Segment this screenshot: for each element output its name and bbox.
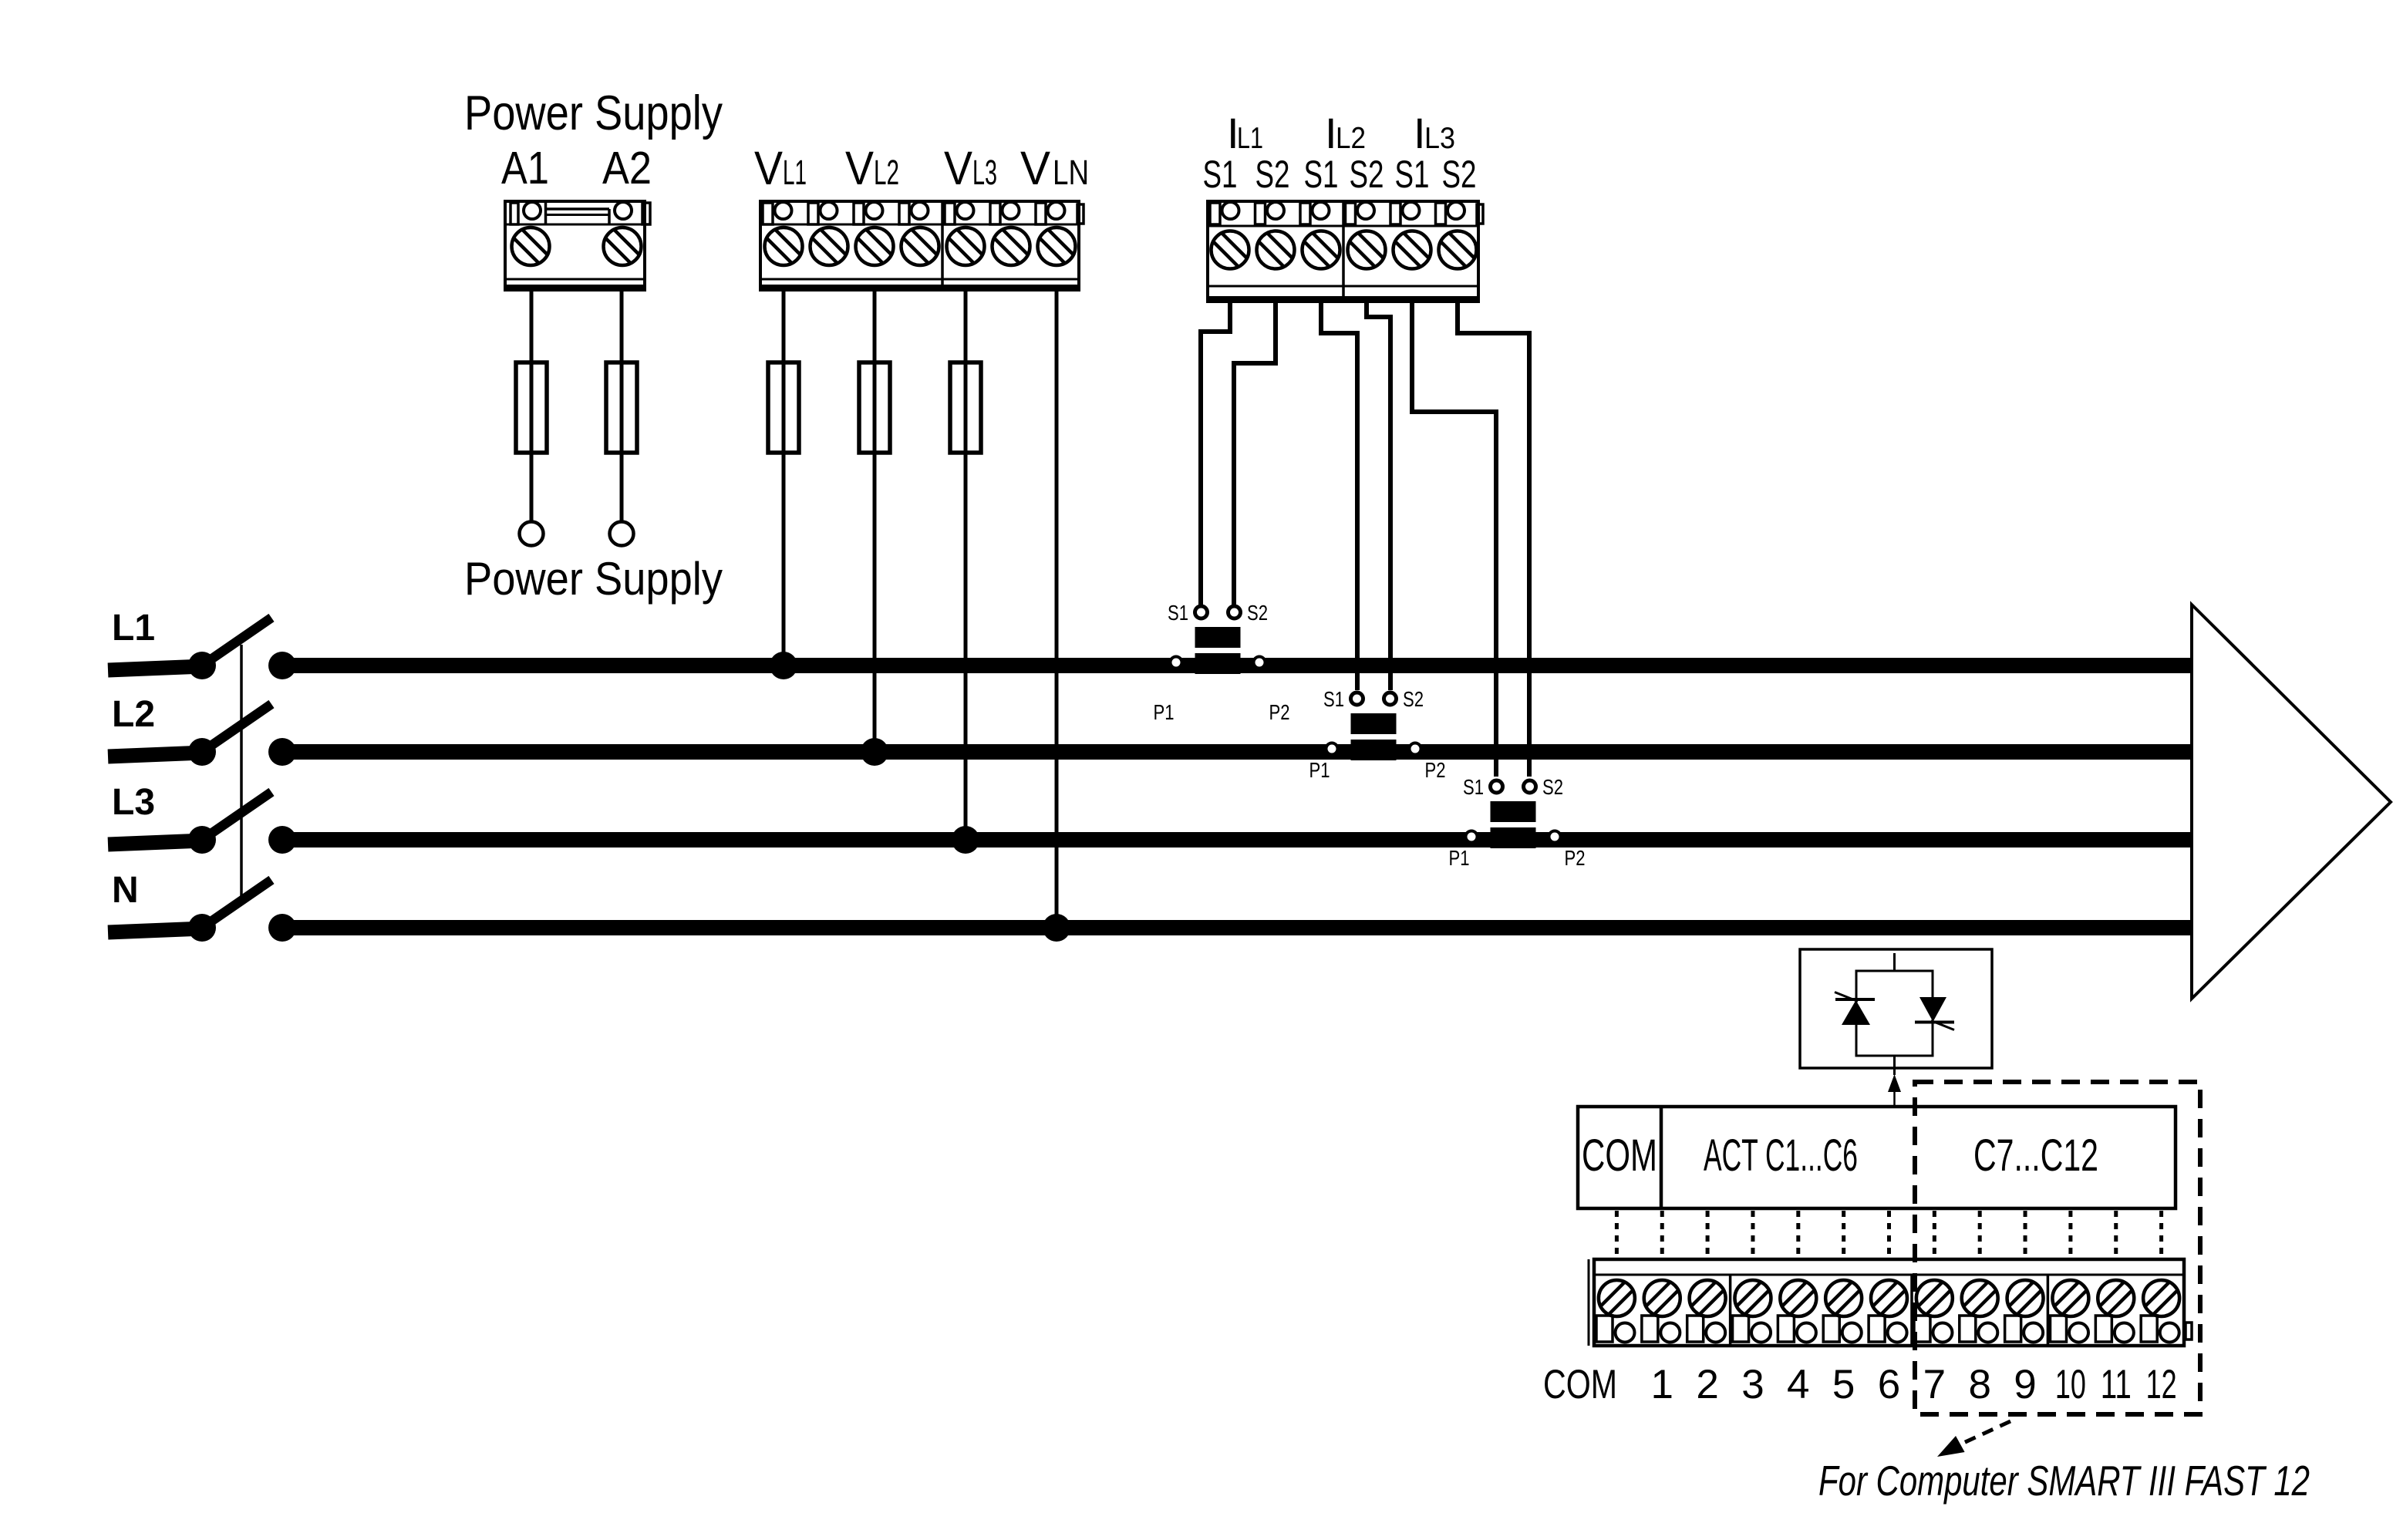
wire <box>964 453 968 840</box>
svg-text:L1: L1 <box>1237 122 1263 155</box>
svg-text:V: V <box>944 142 972 194</box>
CT T1: S2 ring <box>1229 606 1241 618</box>
svg-text:P2: P2 <box>1565 846 1586 870</box>
CT T2: core bars <box>1351 713 1397 734</box>
wire <box>530 453 534 522</box>
svg-text:V: V <box>845 142 874 194</box>
CT T3: S2 ring <box>1524 780 1536 793</box>
svg-text:7: 7 <box>1923 1362 1946 1407</box>
tie line 4 <box>1796 1211 1800 1258</box>
wire: module output stub <box>1893 1056 1896 1075</box>
switch mechanical link <box>240 645 243 905</box>
tie line 9 <box>2024 1211 2027 1258</box>
svg-text:V: V <box>1020 142 1050 194</box>
node on bus L3 <box>268 826 296 854</box>
fuse F3 <box>768 362 799 453</box>
svg-text:S1: S1 <box>1304 153 1339 196</box>
divider COM|ACT <box>1660 1107 1663 1208</box>
dashed arrow leader <box>1962 1421 2010 1444</box>
switch pole L2: pivot node <box>188 738 216 766</box>
tie line 2 <box>1706 1211 1710 1258</box>
wire IL3-S1 <box>1412 302 1496 777</box>
svg-text:S2: S2 <box>1247 601 1268 625</box>
svg-text:ACT C1...C6: ACT C1...C6 <box>1704 1131 1858 1181</box>
switch pole L1: blade <box>202 618 271 666</box>
svg-text:L3: L3 <box>112 782 155 823</box>
junction VLN on N <box>1043 914 1070 942</box>
wire VL1 <box>782 290 786 362</box>
svg-text:L1: L1 <box>112 608 155 649</box>
switch pole L3: blade <box>202 792 271 840</box>
terminal block X3 (CT secondary inputs) <box>1208 201 1483 302</box>
svg-text:P1: P1 <box>1154 700 1175 724</box>
tie line 7 <box>1933 1211 1936 1258</box>
svg-text:S1: S1 <box>1395 153 1430 196</box>
wire VL3 <box>964 290 968 362</box>
svg-text:5: 5 <box>1832 1362 1855 1407</box>
svg-text:6: 6 <box>1878 1362 1900 1407</box>
svg-text:P1: P1 <box>1309 758 1330 782</box>
CT T1: core bars <box>1195 627 1241 648</box>
wire A2 <box>620 290 624 362</box>
CT T3: P2 hole <box>1549 831 1561 843</box>
tie line 11 <box>2114 1211 2118 1258</box>
tie line 6 <box>1887 1211 1891 1258</box>
junction VL3 on L3 <box>952 826 979 854</box>
svg-text:L2: L2 <box>874 153 899 192</box>
node on bus L1 <box>268 652 296 679</box>
svg-text:L1: L1 <box>783 153 807 192</box>
wire <box>873 453 877 752</box>
svg-text:10: 10 <box>2055 1362 2086 1407</box>
wire top bracket <box>1856 971 1933 999</box>
wire <box>620 453 624 522</box>
svg-text:L2: L2 <box>1336 122 1366 155</box>
tie line 3 <box>1751 1211 1754 1258</box>
svg-text:4: 4 <box>1787 1362 1809 1407</box>
svg-text:8: 8 <box>1968 1362 1990 1407</box>
svg-text:P2: P2 <box>1425 758 1446 782</box>
CT T2: P2 hole <box>1410 743 1421 755</box>
svg-text:1: 1 <box>1651 1362 1673 1407</box>
fuse F5 <box>950 362 981 453</box>
CT T3: P1 hole <box>1466 831 1478 843</box>
svg-text:S2: S2 <box>1442 153 1477 196</box>
wire A1 <box>530 290 534 362</box>
CT T2: S2 ring <box>1384 692 1397 705</box>
wire IL3-S2 <box>1458 302 1529 777</box>
bus L2 supply stub <box>108 753 204 757</box>
svg-text:L3: L3 <box>972 153 997 192</box>
svg-text:L3: L3 <box>1424 122 1455 155</box>
arrowhead (down-left) <box>1937 1436 1965 1457</box>
svg-text:LN: LN <box>1053 153 1089 192</box>
wire VLN <box>1055 290 1059 928</box>
svg-text:Power Supply: Power Supply <box>464 553 723 605</box>
svg-text:12: 12 <box>2146 1362 2177 1407</box>
svg-text:3: 3 <box>1741 1362 1764 1407</box>
tie line 0 <box>1615 1211 1619 1258</box>
junction VL1 on L1 <box>770 652 797 679</box>
CT T3: core bars <box>1491 801 1536 822</box>
svg-text:2: 2 <box>1696 1362 1718 1407</box>
svg-text:S1: S1 <box>1463 775 1484 799</box>
svg-text:COM: COM <box>1582 1131 1657 1181</box>
svg-text:9: 9 <box>2014 1362 2036 1407</box>
junction VL2 on L2 <box>861 738 888 766</box>
CT T1: P2 hole <box>1254 657 1266 669</box>
svg-text:S1: S1 <box>1203 153 1238 196</box>
terminal block X2 (voltage inputs VL1 VL2 VL3 VLN) <box>760 201 1084 290</box>
CT T1: P1 hole <box>1171 657 1182 669</box>
switch pole N: pivot node <box>188 914 216 942</box>
svg-text:N: N <box>112 870 139 911</box>
fuse F1 <box>516 362 547 453</box>
CT T2: S1 ring <box>1351 692 1363 705</box>
CT T3: S1 ring <box>1491 780 1503 793</box>
svg-text:A2: A2 <box>602 143 652 194</box>
svg-text:C7...C12: C7...C12 <box>1973 1131 2098 1181</box>
svg-text:L2: L2 <box>112 694 155 735</box>
svg-text:S1: S1 <box>1323 687 1344 711</box>
tie line 8 <box>1978 1211 1982 1258</box>
thyristor Q2 (conducting down) <box>1915 997 1954 1030</box>
switch pole N: blade <box>202 880 271 928</box>
wire bottom bracket <box>1856 1022 1933 1056</box>
wire to relay block <box>1893 1090 1896 1107</box>
wire IL2-S2 <box>1367 302 1390 690</box>
terminal block X1 (power supply A1 A2) <box>505 201 650 290</box>
arrowhead (up) <box>1888 1074 1901 1092</box>
supply pin A2 <box>610 522 634 546</box>
bus L3 main run <box>282 832 2194 848</box>
fuse F2 <box>606 362 637 453</box>
node: top stub <box>1893 953 1896 971</box>
load flow arrow <box>2192 605 2391 999</box>
svg-text:COM: COM <box>1543 1362 1617 1407</box>
svg-text:S2: S2 <box>1350 153 1384 196</box>
wire <box>782 453 786 666</box>
bus L2 main run <box>282 744 2194 760</box>
svg-text:P1: P1 <box>1449 846 1470 870</box>
svg-text:S2: S2 <box>1403 687 1424 711</box>
bus N supply stub <box>108 928 204 932</box>
switch pole L3: pivot node <box>188 826 216 854</box>
bus N main run <box>282 920 2194 935</box>
output block outline <box>1578 1107 2176 1208</box>
tie line 12 <box>2159 1211 2163 1258</box>
bus L1 main run <box>282 658 2194 673</box>
svg-text:For Computer SMART III FAST 12: For Computer SMART III FAST 12 <box>1818 1457 2310 1505</box>
node on bus L2 <box>268 738 296 766</box>
svg-text:V: V <box>754 142 783 194</box>
tie line 1 <box>1660 1211 1664 1258</box>
dashed box (optional C7..C12 section) <box>1915 1082 2200 1414</box>
CT T1: S1 ring <box>1195 606 1208 618</box>
terminal block X4 (contactor outputs COM 1..12) <box>1589 1259 2192 1346</box>
switch pole L2: blade <box>202 704 271 752</box>
tie line 5 <box>1842 1211 1845 1258</box>
node on bus N <box>268 914 296 942</box>
fuse F4 <box>859 362 890 453</box>
thyristor module box <box>1800 949 1992 1068</box>
switch pole L1: pivot node <box>188 652 216 679</box>
bus L1 supply stub <box>108 666 204 670</box>
svg-text:11: 11 <box>2101 1362 2132 1407</box>
tie line 10 <box>2068 1211 2072 1258</box>
wire VL2 <box>873 290 877 362</box>
svg-text:A1: A1 <box>501 143 549 194</box>
wire IL1-S1 <box>1201 302 1230 605</box>
supply pin A1 <box>520 522 544 546</box>
wire IL1-S2 <box>1234 302 1276 605</box>
CT T2: P1 hole <box>1326 743 1338 755</box>
svg-text:S2: S2 <box>1542 775 1563 799</box>
svg-text:P2: P2 <box>1269 700 1290 724</box>
svg-text:S2: S2 <box>1255 153 1290 196</box>
svg-text:S1: S1 <box>1168 601 1188 625</box>
wire IL2-S1 <box>1321 302 1357 690</box>
thyristor Q1 (conducting up) <box>1835 992 1875 1026</box>
bus L3 supply stub <box>108 841 204 844</box>
svg-text:Power Supply: Power Supply <box>464 86 723 140</box>
